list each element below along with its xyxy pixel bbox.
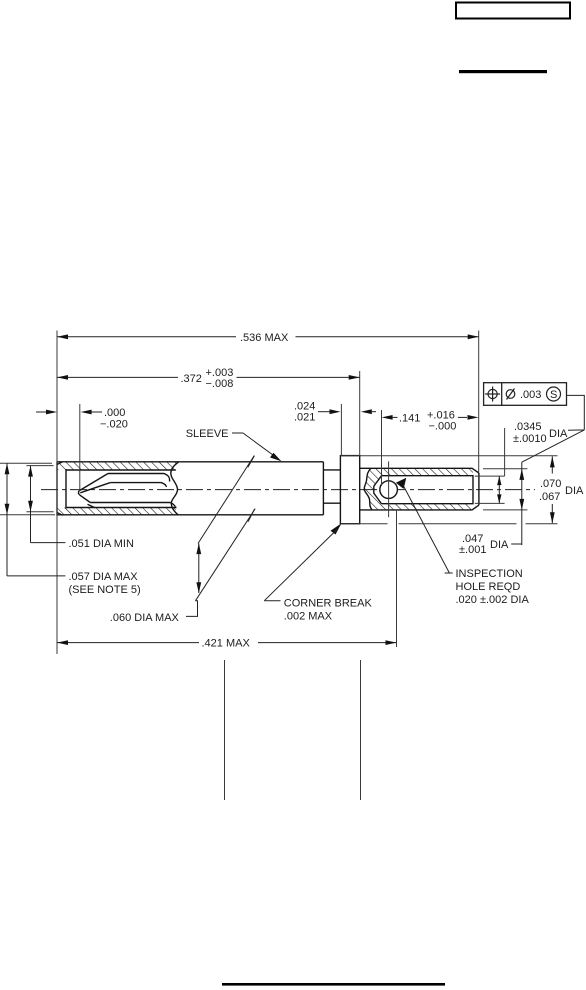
leader from FCF — [522, 395, 585, 462]
dimension .047 leader line — [511, 462, 524, 545]
rotated extension line lower (.060) — [195, 509, 255, 601]
front shell inner wall lines — [57, 462, 177, 515]
finger second line — [110, 483, 166, 487]
extension line bore left — [381, 410, 383, 486]
dimension .000/-.020 — [81, 407, 128, 431]
dimension .536 MAX — [57, 332, 479, 344]
svg-text:.372: .372 — [181, 373, 202, 385]
sleeve outline rectangle — [57, 462, 323, 515]
svg-text:−.008: −.008 — [206, 378, 234, 390]
right column line — [360, 660, 362, 800]
svg-text:.067: .067 — [539, 491, 560, 503]
crimp section wavy edge — [364, 468, 372, 510]
dimension .057 vertical left — [5, 463, 66, 576]
extension line hole center — [388, 461, 390, 517]
spring finger upper chamfer — [79, 474, 108, 492]
dimension .421 MAX — [57, 638, 397, 650]
svg-text:.003: .003 — [520, 389, 541, 401]
extension .051 top left — [26, 466, 53, 512]
top-right empty box — [456, 3, 570, 19]
svg-text:INSPECTION: INSPECTION — [456, 568, 523, 580]
svg-text:.020 ±.002 DIA: .020 ±.002 DIA — [456, 594, 530, 606]
left column line — [224, 660, 226, 800]
dimension .070/.067 — [539, 456, 584, 523]
svg-text:CORNER BREAK: CORNER BREAK — [284, 598, 373, 610]
svg-text:−.000: −.000 — [429, 421, 457, 433]
dimension .051 vertical left — [28, 466, 65, 543]
svg-text:HOLE REQD: HOLE REQD — [456, 581, 521, 593]
spring finger lower chamfer — [80, 495, 91, 503]
svg-text:DIA: DIA — [549, 428, 568, 440]
svg-text:.057 DIA MAX: .057 DIA MAX — [69, 571, 139, 583]
dimension .141 +.016/-.000 — [382, 410, 479, 433]
extension .057 top left — [0, 463, 55, 515]
dimension .000/-.020 left arrow — [36, 410, 57, 415]
feature control frame — [484, 383, 567, 406]
svg-text:.021: .021 — [294, 412, 315, 424]
extension barrel od top — [483, 468, 527, 470]
extension line collar right — [359, 371, 361, 456]
svg-text:.051 DIA MIN: .051 DIA MIN — [69, 538, 134, 550]
dimension .372 +.003/-.008 — [57, 367, 360, 390]
leader SLEEVE — [186, 428, 282, 461]
svg-text:.536 MAX: .536 MAX — [240, 332, 289, 344]
barrel wall hatched section — [364, 468, 473, 510]
front shell hatched bottom wall — [57, 508, 179, 516]
finger bottom line — [90, 503, 175, 508]
svg-text:±.001: ±.001 — [459, 544, 486, 556]
extension line hole far side — [396, 510, 398, 647]
svg-text:.070: .070 — [540, 478, 561, 490]
dimension .060 arrows — [186, 543, 201, 616]
svg-text:.002 MAX: .002 MAX — [284, 611, 333, 623]
svg-text:DIA: DIA — [490, 539, 509, 551]
barrel outer top line — [360, 468, 479, 473]
extension line part nose — [56, 331, 58, 655]
extension line collar left — [340, 404, 342, 456]
barrel end face — [478, 473, 480, 505]
dimension .024/.021 — [294, 401, 376, 424]
svg-text:.141: .141 — [399, 413, 420, 425]
broken-out section boundary (scallop) — [171, 462, 179, 515]
spring finger tip — [78, 491, 79, 495]
leader INSPECTION HOLE — [396, 478, 453, 573]
extension line part right end — [478, 331, 480, 473]
spring finger lower ledge — [88, 504, 96, 508]
bottom rule — [222, 983, 445, 986]
svg-text:.0345: .0345 — [514, 421, 542, 433]
svg-text:(SEE NOTE 5): (SEE NOTE 5) — [69, 584, 141, 596]
collar (sleeve flange) — [340, 456, 359, 524]
extension bore bottom — [475, 502, 505, 504]
barrel bore outline — [382, 476, 474, 504]
front shell hatched top wall — [57, 462, 179, 470]
svg-text:S: S — [550, 389, 557, 401]
svg-text:SLEEVE: SLEEVE — [186, 428, 229, 440]
svg-text:.060 DIA MAX: .060 DIA MAX — [110, 612, 180, 624]
spring finger upper inner line — [80, 483, 110, 493]
leader CORNER BREAK — [264, 523, 341, 600]
rotated extension line upper (.060) — [198, 456, 254, 544]
extension collar top / .070 top — [340, 455, 557, 457]
centerline — [41, 489, 535, 491]
extension bore top — [475, 475, 505, 477]
sleeve right end face — [322, 462, 324, 515]
svg-text:±.0010: ±.0010 — [513, 433, 547, 445]
neck between sleeve and collar — [323, 470, 340, 503]
svg-text:DIA: DIA — [565, 485, 584, 497]
bore left funnel — [374, 476, 382, 504]
barrel outer bottom line — [360, 505, 479, 510]
extension line 0345 leader drop — [504, 428, 506, 476]
svg-text:.421 MAX: .421 MAX — [202, 638, 251, 650]
svg-text:−.020: −.020 — [100, 419, 128, 431]
dimension .0345 arrows — [497, 476, 501, 503]
inspection hole — [380, 481, 398, 499]
extension line finger tip — [79, 404, 81, 491]
svg-text:.000: .000 — [104, 407, 125, 419]
extension barrel od bottom — [483, 509, 527, 511]
top-right underline bar — [459, 70, 547, 73]
finger top line — [108, 474, 170, 482]
extension collar bottom / .070 bottom — [340, 523, 557, 525]
